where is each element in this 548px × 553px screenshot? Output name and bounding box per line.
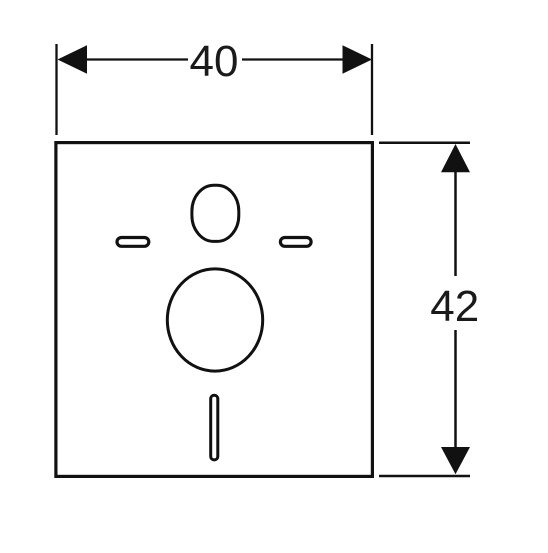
svg-text:40: 40 xyxy=(190,37,239,86)
svg-text:42: 42 xyxy=(430,282,479,331)
